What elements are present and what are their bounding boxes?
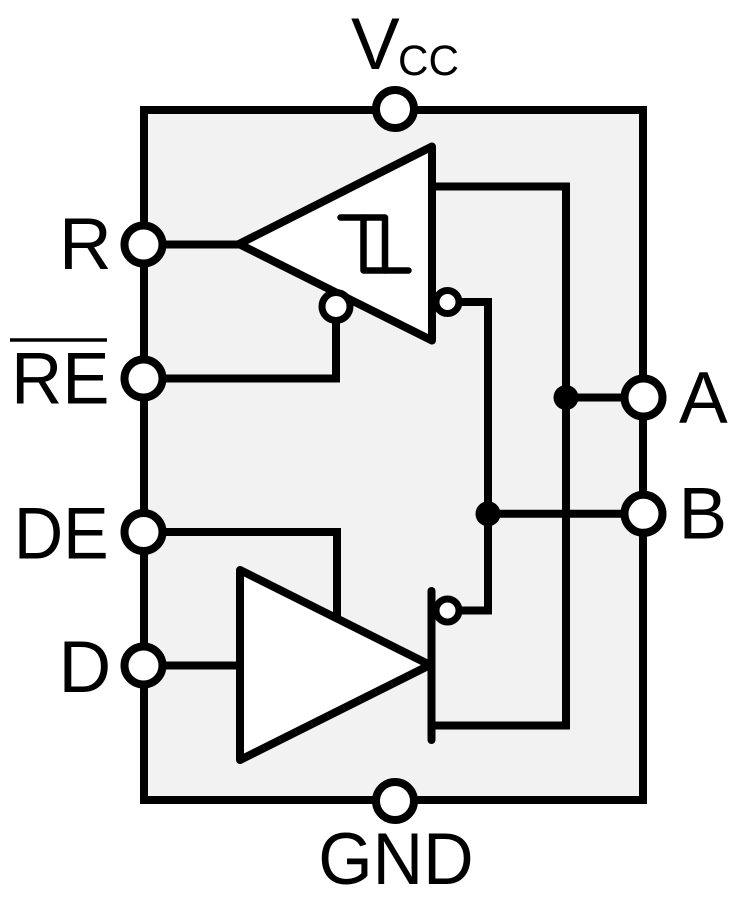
svg-text:DE: DE	[14, 494, 109, 575]
junction node B	[476, 501, 501, 526]
receiver enable bubble	[322, 293, 350, 321]
wire RE pin horizontal	[143, 321, 336, 379]
IC body box U1	[144, 110, 643, 800]
pin A	[625, 379, 663, 417]
pin GND	[376, 782, 414, 820]
receiver buffer U1A (points left)	[239, 147, 432, 341]
svg-text:A: A	[679, 358, 728, 439]
driver inverting output bubble	[436, 599, 459, 622]
svg-text:R: R	[59, 204, 112, 285]
svg-text:D: D	[59, 627, 112, 708]
pin B	[625, 495, 663, 533]
wire R pin to receiver apex	[143, 241, 245, 249]
pin VCC	[376, 90, 414, 128]
pin R	[125, 226, 163, 264]
pin D	[125, 647, 163, 685]
wire A node to A pin	[566, 394, 643, 402]
wire driver output bar	[428, 591, 436, 740]
driver buffer U1B (points right)	[240, 570, 430, 760]
wire A net: receiver input, vertical bus, driver output	[431, 187, 566, 726]
wire B node to B pin	[488, 510, 643, 518]
svg-text:B: B	[679, 474, 728, 555]
wire DE pin horizontal	[143, 532, 337, 616]
pin RE	[125, 360, 163, 398]
svg-text:RE: RE	[11, 339, 109, 420]
svg-text:CC: CC	[398, 37, 459, 85]
hysteresis symbol	[341, 218, 409, 271]
overline on RE	[10, 338, 107, 342]
pin DE	[125, 513, 163, 551]
junction node A	[554, 385, 579, 410]
svg-text:GND: GND	[318, 819, 473, 900]
wire D pin to driver input	[143, 662, 244, 670]
svg-text:V: V	[351, 4, 400, 85]
wire B net: receiver inverting input to vertical bus	[459, 302, 488, 611]
receiver inverting input bubble	[436, 291, 459, 314]
